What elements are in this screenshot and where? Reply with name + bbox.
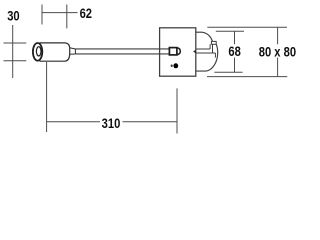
svg-text:80 x 80: 80 x 80: [259, 44, 296, 59]
dimension 310 label: [102, 116, 121, 131]
dimension 310 right extension: [176, 88, 178, 133]
svg-text:68: 68: [228, 44, 240, 59]
switch dot small: [171, 64, 173, 67]
arm wall fitting rounded cap: [177, 48, 180, 55]
dimension 80x80 bottom tick: [207, 76, 287, 78]
side view seam upper: [196, 48, 210, 50]
side view top edge: [196, 31, 202, 33]
dimension 80x80 top tick: [207, 26, 287, 28]
dimension 62 line: [42, 12, 78, 14]
dimension 62 right extension: [66, 5, 68, 29]
dimension 68 top tick: [216, 30, 244, 32]
dimension 310 line left segment: [47, 121, 100, 123]
lamp head rear cap: [65, 43, 70, 61]
switch dot large: [173, 63, 178, 68]
lamp head body bottom line: [40, 60, 66, 62]
arm wall fitting body: [169, 48, 177, 55]
dimension 80x80 line upper: [277, 27, 279, 44]
lamp head front rim outer ellipse: [33, 43, 42, 61]
side view flange right edge: [214, 53, 216, 58]
side view right profile and bottom: [196, 44, 218, 71]
dimension 62 label: [80, 6, 92, 21]
side view socket cap box: [211, 41, 216, 44]
side view top arc: [202, 32, 213, 41]
side view socket tube left: [209, 44, 211, 49]
dimension 68 bottom tick: [214, 71, 242, 73]
dimension 30 label: [7, 8, 19, 23]
side view socket tube right: [212, 44, 214, 53]
lamp head neck joint: [74, 49, 76, 54]
side view seam lower: [196, 52, 216, 54]
dimension 30 line: [12, 25, 14, 78]
dimension 80x80 label: [259, 44, 296, 59]
svg-text:62: 62: [80, 6, 92, 21]
lamp arm bottom line: [75, 53, 169, 55]
lamp head body top line: [40, 42, 66, 44]
svg-text:310: 310: [102, 116, 121, 131]
lamp head neck cone bottom: [70, 53, 76, 55]
dimension 30 bottom tick: [4, 60, 27, 62]
dimension 62 left extension: [41, 5, 43, 25]
dimension 68 line upper: [234, 31, 236, 44]
dimension 68 label: [228, 44, 240, 59]
dimension 30 top tick: [4, 42, 27, 44]
lamp head lens inner ellipse: [36, 47, 41, 56]
dimension 310 left extension: [46, 62, 48, 132]
wall plate front view: [160, 28, 196, 76]
arm pivot wedge on plate edge: [193, 50, 196, 53]
dimension 310 line right segment: [123, 121, 178, 123]
dimension 80x80 line lower: [277, 58, 279, 77]
dimension 68 line lower: [234, 58, 236, 73]
lamp head neck cone top: [70, 48, 76, 49]
svg-text:30: 30: [7, 8, 19, 23]
lamp arm top line: [75, 48, 169, 50]
